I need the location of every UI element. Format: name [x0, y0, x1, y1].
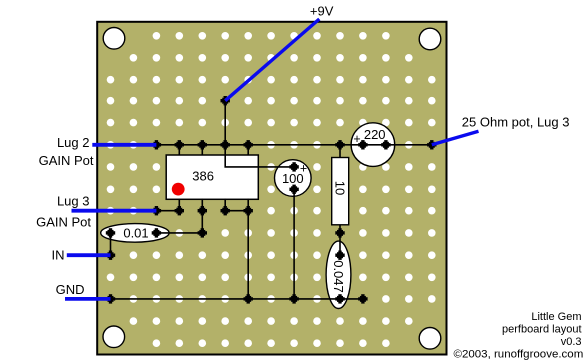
pin 5 [244, 140, 253, 149]
op-amp IC U1 386 body [166, 155, 258, 199]
cap 220 positive lead [381, 140, 390, 149]
node cap100 ground junction [289, 294, 298, 303]
wire lug2 gain pot (blue) [92, 143, 156, 147]
wire pin stub bottom pin3 [224, 199, 226, 211]
cap 0.01 right lead [152, 228, 161, 237]
wire to 25 Ohm pot (blue diagonal) [432, 131, 479, 145]
cap 0.047 bottom lead [335, 294, 344, 303]
svg-text:GAIN Pot: GAIN Pot [36, 215, 91, 230]
pin 7 [198, 140, 207, 149]
wire GND (blue) [65, 297, 111, 301]
svg-text:10: 10 [333, 181, 348, 195]
pin 2 [198, 206, 207, 215]
svg-text:+9V: +9V [310, 4, 334, 19]
wire 0.01 to pin2 branch [156, 232, 202, 234]
svg-text:Lug 2: Lug 2 [57, 135, 90, 150]
perfboard [97, 22, 446, 355]
svg-text:+: + [353, 132, 360, 146]
node resistor-10 top [335, 140, 344, 149]
pin 1 [175, 206, 184, 215]
cap 0.047 top lead [335, 251, 344, 260]
pin 6 [221, 140, 230, 149]
wire pin stub bottom pin1 [178, 199, 180, 211]
node lug3 [152, 206, 161, 215]
node lug2 / pin8 rail [152, 140, 161, 149]
wire supply row (pins row 1 to 220 cap to output) [156, 144, 431, 146]
svg-text:©2003, runoffgroove.com: ©2003, runoffgroove.com [454, 349, 584, 360]
svg-text:Lug 3: Lug 3 [57, 194, 90, 209]
capacitor 0.047 body [326, 241, 351, 308]
wire pin4 to ground rail [247, 199, 249, 299]
svg-text:IN: IN [52, 248, 65, 263]
mounting hole bottom-left [103, 326, 125, 348]
node pin4 ground junction [244, 294, 253, 303]
svg-text:0.01: 0.01 [123, 225, 148, 240]
cap 0.01 left lead [106, 228, 115, 237]
svg-text:0.047: 0.047 [331, 260, 346, 293]
mounting hole top-left [103, 28, 125, 50]
wire resistor-10 / 0.047 branch [339, 145, 341, 255]
capacitor C 220 body [351, 123, 395, 167]
node IN [106, 251, 115, 260]
pin 8 [175, 140, 184, 149]
node output to 25-ohm pot [427, 140, 436, 149]
wire pin2 to 0.01 junction [201, 199, 203, 233]
node +9V junction [221, 96, 230, 105]
svg-text:perfboard layout: perfboard layout [502, 324, 582, 336]
wire IN (blue) [67, 253, 111, 257]
wire +9V drop [224, 101, 226, 145]
IC pin-1 red dot marker [172, 183, 185, 196]
resistor 10 body [332, 158, 349, 225]
wire +9V (blue diagonal) [225, 19, 319, 101]
svg-text:v0.3: v0.3 [561, 336, 582, 348]
wire pin stub top pin8 [178, 145, 180, 156]
svg-text:25 Ohm pot, Lug 3: 25 Ohm pot, Lug 3 [462, 115, 570, 130]
wire pin3 to pin4 [225, 210, 248, 212]
svg-text:386: 386 [192, 169, 214, 184]
svg-text:GAIN Pot: GAIN Pot [39, 153, 94, 168]
svg-text:+: + [300, 161, 307, 175]
capacitor C 100 body [275, 160, 312, 197]
wire ground rail [111, 298, 363, 300]
mounting hole bottom-right [419, 328, 441, 350]
wire pin stub top pin5 [247, 145, 249, 156]
wire pin stub top pin7 [201, 145, 203, 156]
svg-text:220: 220 [364, 127, 386, 142]
pin 3 [221, 206, 230, 215]
node ground rail end [358, 294, 367, 303]
node GND [106, 294, 115, 303]
svg-text:GND: GND [56, 282, 85, 297]
mounting hole top-right [419, 28, 441, 50]
wire lug3 node to pin1 [156, 210, 179, 212]
cap 220 negative lead [358, 140, 367, 149]
wire cap 100 to ground rail [293, 189, 295, 299]
cap 100 positive lead [289, 162, 298, 171]
capacitor 0.01 body [101, 224, 169, 243]
wire jumper pin6 to cap 100 [225, 145, 294, 167]
cap 100 negative lead [289, 185, 298, 194]
node resistor-10 bottom [335, 228, 344, 237]
node 0.01/pin2 junction [198, 228, 207, 237]
wire IN to 0.01 [110, 233, 112, 255]
pin 4 [244, 206, 253, 215]
svg-text:Little Gem: Little Gem [531, 311, 581, 323]
wire lug3 gain pot (blue) [72, 209, 157, 213]
